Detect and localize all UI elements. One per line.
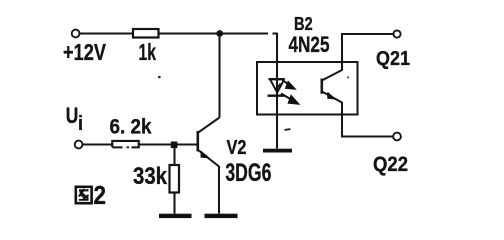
svg-text:B2: B2: [294, 14, 313, 34]
svg-text:U: U: [66, 103, 79, 128]
svg-text:V2: V2: [227, 136, 247, 159]
svg-text:2: 2: [94, 180, 107, 210]
svg-text:i: i: [78, 113, 83, 135]
svg-text:3DG6: 3DG6: [225, 159, 271, 187]
svg-text:1k: 1k: [139, 39, 157, 65]
svg-text:33k: 33k: [133, 163, 168, 190]
svg-text:Q22: Q22: [373, 152, 408, 176]
svg-text:4N25: 4N25: [289, 32, 330, 57]
svg-text:Q21: Q21: [376, 47, 410, 70]
svg-text:6. 2k: 6. 2k: [110, 116, 152, 139]
svg-text:+12V: +12V: [63, 39, 106, 65]
